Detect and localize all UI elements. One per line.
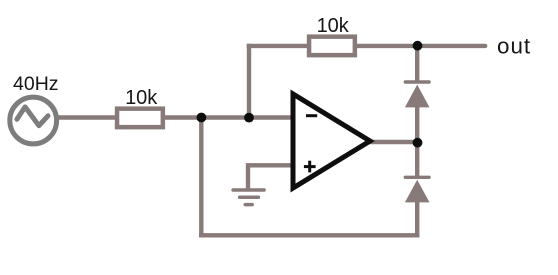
svg-text:40Hz: 40Hz	[13, 73, 59, 95]
wire: source to R1	[57, 115, 117, 119]
wire: op-amp output	[368, 140, 417, 144]
node A junction	[197, 113, 207, 123]
diode D2	[405, 177, 430, 202]
svg-text:out: out	[497, 34, 531, 59]
source V1	[10, 97, 57, 144]
svg-text:10k: 10k	[125, 87, 158, 109]
wire: bottom run to D2 anode	[415, 201, 419, 238]
wire: D1 cathode to top node	[415, 46, 419, 82]
wire: non-inverting input	[248, 165, 293, 190]
wire: D2 cathode to output node	[415, 142, 419, 177]
diode D1	[405, 82, 430, 107]
wire: node A down	[199, 118, 203, 238]
wire: top feedback left segment	[247, 44, 308, 48]
resistor R1	[117, 109, 163, 128]
node D junction (op-amp output)	[413, 138, 423, 148]
node C junction (top/out)	[413, 41, 423, 51]
wire: output node to D1 anode	[415, 106, 419, 143]
wire: R1 to inverting input	[163, 115, 293, 119]
svg-text:10k: 10k	[317, 15, 350, 37]
ground	[233, 190, 264, 205]
wire: R2 to top node and out stub	[356, 44, 485, 48]
op-amp U1	[293, 94, 370, 188]
wire: bottom run	[199, 233, 419, 237]
resistor R2	[309, 37, 355, 56]
node B junction	[244, 113, 254, 123]
wire: feedback left drop	[247, 44, 251, 118]
